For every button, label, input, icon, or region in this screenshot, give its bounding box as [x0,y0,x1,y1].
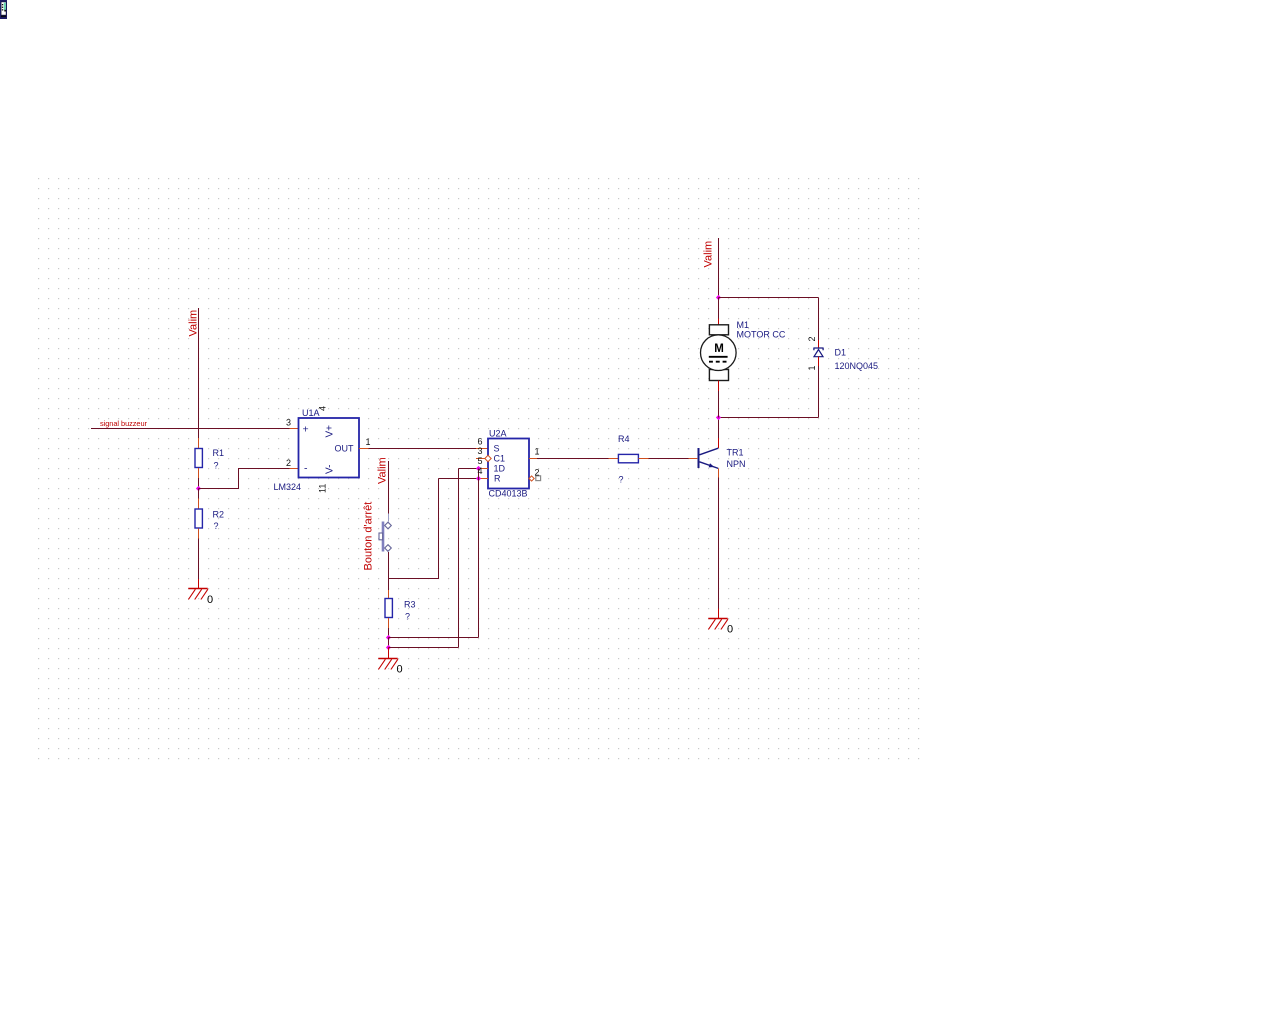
inversion bubble Qbar [529,476,534,481]
wire Valim down [718,238,720,298]
wire vertical 1D column [458,469,460,648]
pin stub R3 bottom [388,618,390,628]
ground left [188,589,208,600]
svg-text:4: 4 [318,406,328,411]
pin stub R1 top [198,438,200,448]
svg-text:M1: M1 [737,320,750,330]
svg-text:M: M [714,343,724,355]
ground right [708,619,728,630]
svg-text:1: 1 [535,447,540,457]
svg-text:MOTOR CC: MOTOR CC [737,330,786,340]
svg-text:0: 0 [397,664,403,676]
wire switch bottom down [388,552,390,579]
wire signal buzzeur to U1A pin 3 [91,428,290,430]
svg-text:V-: V- [325,465,336,474]
svg-text:0: 0 [207,594,213,606]
pin stub TR1 base [689,458,698,460]
unconnected pin marker Qbar [536,476,541,481]
pin stub U1A out [359,448,369,450]
svg-text:-: - [304,463,308,475]
svg-text:Bouton d'arrêt: Bouton d'arrêt [363,502,375,571]
svg-text:NPN: NPN [727,459,746,469]
svg-text:4: 4 [477,466,482,476]
wire vertical R pin column [478,479,480,638]
svg-text:LM324: LM324 [274,482,302,492]
wire R4 to TR1 base [649,458,689,460]
pin stub U1A pin 2 [290,468,299,470]
pin stub U2A 1D [479,468,489,470]
svg-text:?: ? [405,612,410,622]
wire Valim to switch [388,461,390,514]
op-amp U1A body [299,418,360,478]
wire U2A Q to R4 [537,458,609,460]
wire Valim vertical to R1 [198,308,200,438]
pin stub R3 top [388,590,390,598]
svg-text:5: 5 [477,456,482,466]
svg-text:Valim: Valim [377,457,389,484]
junction node R [476,476,481,481]
svg-text:?: ? [214,521,219,531]
pin stub U2A R [479,478,489,480]
pin stub R2 bottom [198,529,200,539]
svg-text:S: S [494,444,500,454]
wire R2 to ground [198,539,200,580]
pin stub U2A S [476,448,488,450]
pin stub U2A Q [529,458,537,460]
wire junction B1 to B2 [388,638,390,648]
ground stub mid [388,648,390,659]
svg-text:0: 0 [727,624,733,636]
svg-text:2: 2 [535,468,540,478]
pin stub R2 top [198,499,200,509]
wire R1 bottom to junction [198,478,200,489]
pin stub U1A pin 3 [290,428,299,430]
svg-text:OUT: OUT [335,444,355,454]
pin stub motor top [718,319,720,325]
svg-text:C1: C1 [494,454,506,464]
junction node A [196,486,201,491]
app icon fragment top-left [0,0,7,19]
wire junction to motor top [718,298,720,319]
resistor R1 [195,449,202,468]
wire top across to diode [719,297,819,299]
pin stub motor bottom [718,381,720,392]
svg-text:TR1: TR1 [727,448,744,458]
svg-text:1: 1 [366,437,371,447]
switch button body [379,522,391,552]
svg-text:CD4013B: CD4013B [489,489,528,499]
diode D1 [813,348,823,357]
wire R3 bottom to junction [388,628,390,638]
svg-text:signal buzzeur: signal buzzeur [100,419,148,428]
svg-text:V+: V+ [325,425,336,438]
pin stub R4 left [609,458,619,460]
wire diode branch down [818,298,820,341]
wire bottom across [719,417,819,419]
resistor R2 [195,509,202,528]
wire junction B2 to 1D column [389,647,459,649]
svg-text:11: 11 [318,484,328,493]
sheet grid [33,173,923,763]
ground stub left [198,579,200,589]
svg-text:R2: R2 [213,510,225,520]
pin stub R1 bottom [198,468,200,478]
svg-text:+: + [303,424,309,436]
junction node B1 [386,635,391,640]
wire 1D to R vertical [478,469,480,479]
wire diode to bottom rail [818,366,820,418]
svg-text:U2A: U2A [489,429,507,439]
junction node M-bottom [716,415,721,420]
svg-text:?: ? [214,461,219,471]
svg-text:Valim: Valim [188,310,200,337]
wire U1A out to U2A S [369,448,477,450]
wire junction to U1A pin 2 [199,469,290,489]
wire emitter to ground [718,478,720,609]
wire R row [439,478,479,480]
svg-text:6: 6 [477,437,482,447]
wire 1D row [459,468,479,470]
flip-flop U2A body [488,439,529,489]
junction node M-top [716,295,721,300]
pin stub TR1 collector [718,438,720,448]
junction node B2 [386,645,391,650]
svg-text:R1: R1 [213,448,225,458]
pin stub TR1 emitter [718,469,720,478]
svg-text:R4: R4 [618,434,630,444]
svg-text:1: 1 [807,365,817,370]
resistor R3 [385,599,392,618]
motor M1 [701,325,737,381]
svg-text:R: R [494,474,501,484]
pin stub R4 right [639,458,649,460]
svg-text:D1: D1 [835,348,847,358]
wire switch to R row [389,479,439,579]
svg-text:Valim: Valim [703,241,715,268]
wire motor bottom to junction [718,391,720,418]
svg-text:1D: 1D [494,464,506,474]
resistor R4 [618,454,638,462]
svg-text:?: ? [619,475,624,485]
svg-text:120NQ045: 120NQ045 [835,361,879,371]
ground mid [378,659,398,670]
wire switch to R3 [388,579,390,591]
junction node 1D [476,466,481,471]
pin stub U2A C1 [476,458,485,460]
svg-text:3: 3 [286,418,291,428]
wire collector up [718,418,720,439]
svg-text:2: 2 [807,336,817,341]
wire junction B1 to R pin column [389,637,479,639]
transistor TR1 [699,448,719,468]
pin stub D1 cathode [818,340,820,348]
clock marker C1 diamond [485,455,491,461]
ground stub right [718,609,720,619]
svg-text:2: 2 [286,458,291,468]
svg-text:R3: R3 [404,600,416,610]
pin stub D1 anode [818,357,820,366]
wire junction down to R2 [198,489,200,499]
svg-text:3: 3 [477,446,482,456]
